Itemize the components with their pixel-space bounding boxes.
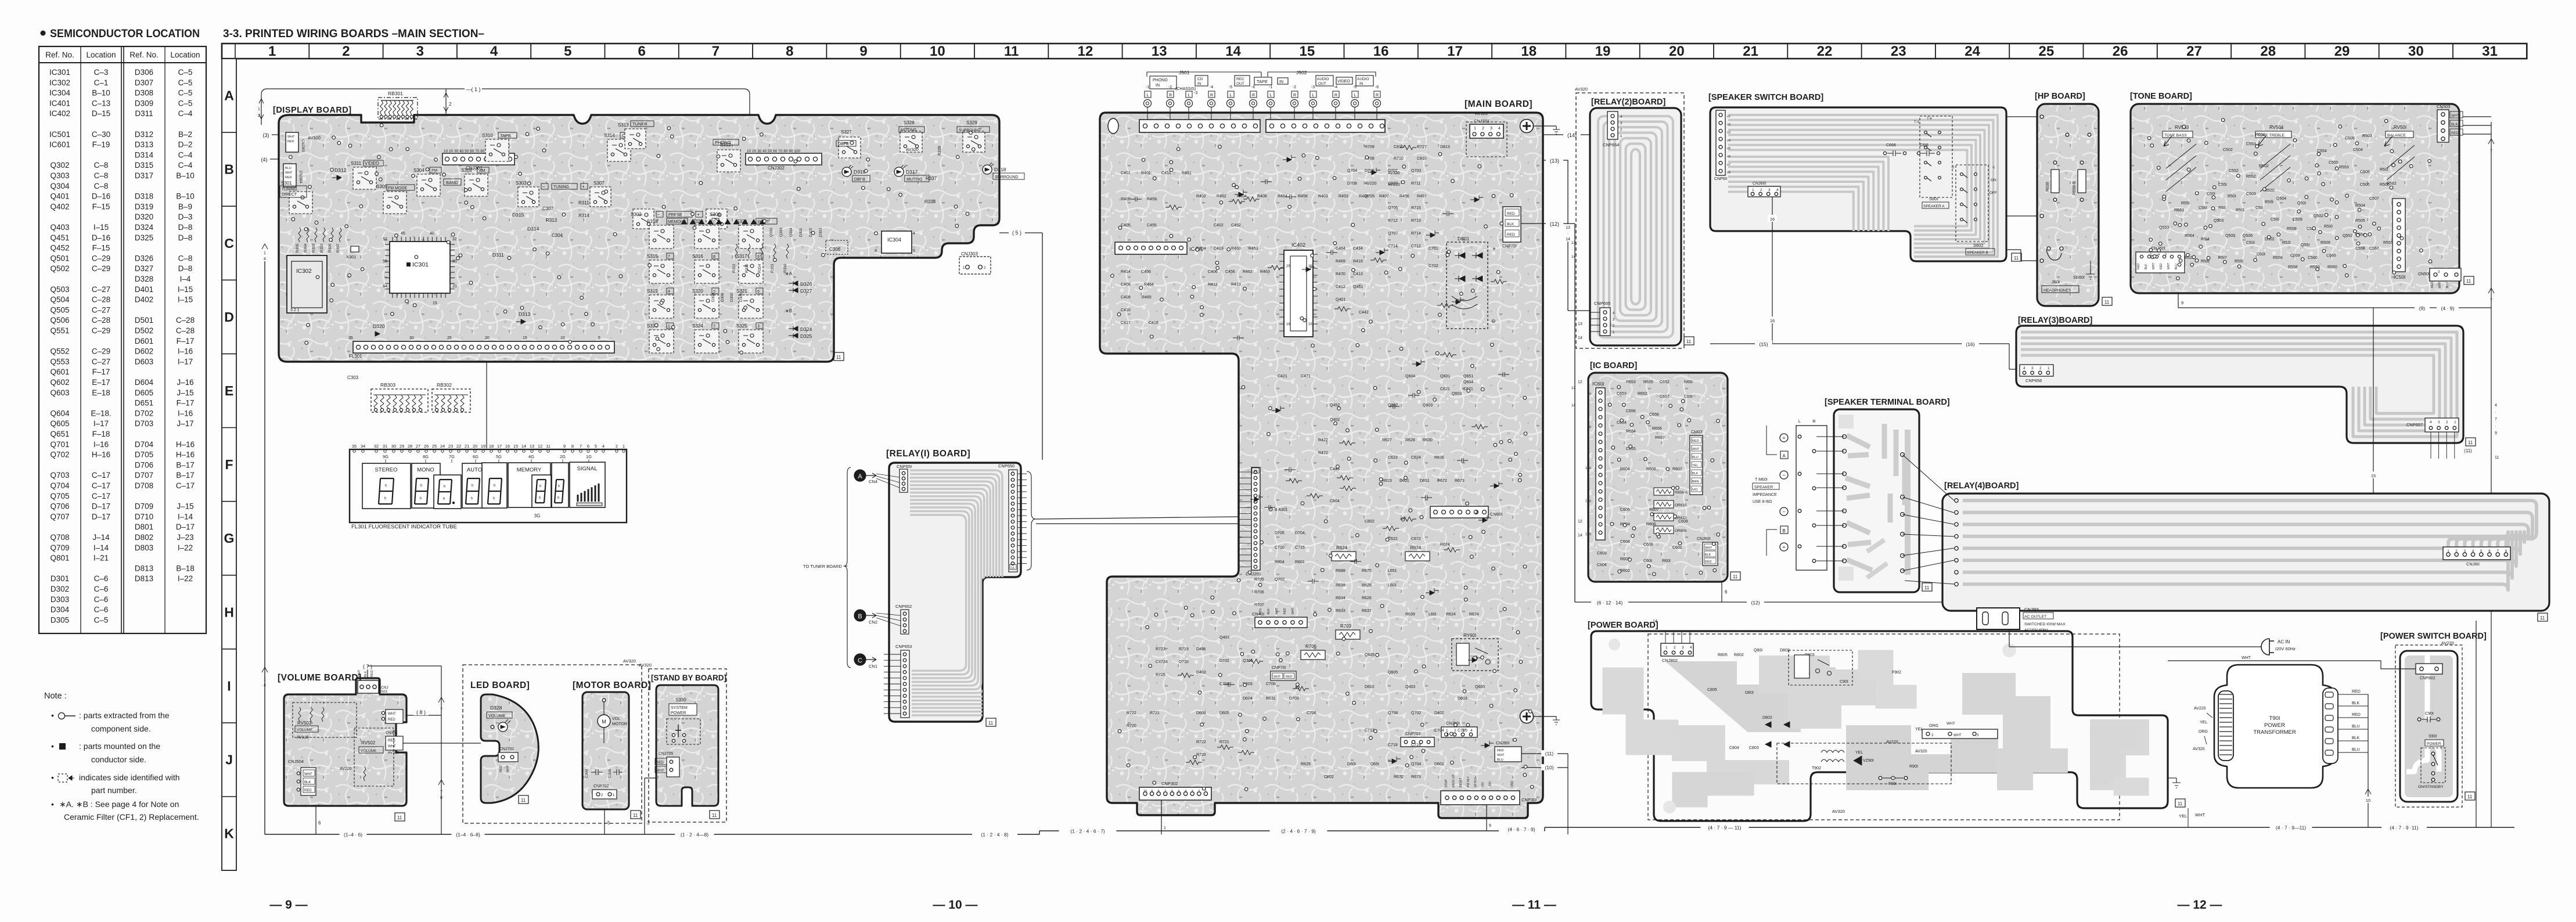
switch S305 FM MODE (376, 184, 415, 214)
svg-text:BLK: BLK (2451, 123, 2458, 127)
svg-text:FL301: FL301 (349, 354, 362, 359)
svg-text:D324: D324 (800, 326, 812, 332)
svg-text:I–22: I–22 (178, 574, 193, 583)
HP board [11] mark (2102, 297, 2112, 305)
power board [11] mark (2175, 799, 2185, 807)
svg-text:C719: C719 (1411, 743, 1421, 747)
svg-text:(4 · 7 · 9 ·11): (4 · 7 · 9 ·11) (2390, 825, 2419, 831)
svg-text:R655: R655 (1643, 380, 1653, 384)
RB302 resistor network (432, 382, 470, 412)
connector CNJ601 + CNP702 bottom right (1401, 722, 1477, 747)
svg-text:11: 11 (1733, 574, 1738, 579)
svg-text:(12): (12) (1550, 221, 1559, 227)
connector CNJ301 (442, 149, 515, 171)
svg-text:R555: R555 (2383, 241, 2393, 245)
connector CNJ302 (746, 149, 822, 171)
svg-text:WHT: WHT (388, 745, 396, 748)
svg-text:D302: D302 (51, 585, 69, 593)
wire 3 standby bottom (645, 778, 656, 834)
svg-text:D318: D318 (994, 167, 1006, 172)
svg-text:11: 11 (1686, 339, 1692, 344)
svg-text:RED: RED (287, 140, 294, 143)
svg-text:WHT: WHT (1947, 722, 1955, 726)
svg-text:4: 4 (1498, 127, 1501, 131)
svg-text:D603: D603 (1458, 697, 1467, 701)
svg-text:11: 11 (988, 721, 994, 726)
semiconductor location table (39, 46, 206, 633)
svg-text:C803: C803 (1749, 746, 1759, 750)
svg-text:3: 3 (647, 820, 650, 826)
svg-text:C605: C605 (1620, 508, 1630, 512)
svg-text:S303: S303 (516, 181, 527, 186)
speaker terminal screws/terminals (1753, 426, 1788, 556)
svg-text:D327: D327 (800, 288, 812, 294)
wire 1 CNP302 to bus (1161, 800, 1166, 834)
svg-text:28: 28 (408, 444, 412, 449)
svg-text:4: 4 (490, 44, 498, 59)
switch S601 SPEAKER A (1914, 116, 1952, 208)
svg-text:RV504: RV504 (2269, 125, 2284, 130)
svg-text:+5V: +5V (1481, 781, 1485, 787)
svg-text:CNJ60I: CNJ60I (1697, 537, 1710, 541)
svg-text:C–27: C–27 (92, 305, 110, 314)
svg-text:5: 5 (564, 44, 571, 59)
svg-text:C306: C306 (829, 247, 841, 252)
svg-text:AV220: AV220 (340, 767, 352, 771)
YEL WHT labels below power board (2179, 808, 2205, 827)
svg-text:E–18.: E–18. (91, 409, 111, 417)
svg-text:C–5: C–5 (178, 99, 193, 107)
svg-text:14: 14 (1578, 534, 1582, 538)
svg-text:S302: S302 (631, 212, 642, 217)
svg-text:R562: R562 (2387, 182, 2397, 186)
svg-text:D802: D802 (135, 533, 153, 542)
svg-text:[TONE BOARD]: [TONE BOARD] (2130, 92, 2192, 101)
svg-text:D707: D707 (135, 471, 153, 480)
svg-text:C702: C702 (1429, 264, 1438, 268)
svg-text:Q451: Q451 (50, 233, 69, 242)
svg-text:Q55I: Q55I (2301, 243, 2309, 247)
svg-text:K: K (224, 826, 234, 841)
node C / CN1 (854, 654, 877, 669)
svg-text:R706: R706 (1254, 590, 1264, 595)
svg-text:C456: C456 (1141, 270, 1151, 274)
svg-text:C308: C308 (608, 769, 612, 778)
svg-text:11: 11 (2014, 255, 2019, 261)
svg-text:1: 1 (268, 44, 276, 59)
svg-text:S304: S304 (413, 168, 424, 173)
svg-text:IC402: IC402 (1291, 242, 1305, 248)
svg-text:-2: -2 (1951, 166, 1955, 170)
svg-text:3G: 3G (534, 513, 541, 518)
svg-text:D705: D705 (135, 451, 153, 459)
svg-text:YEL: YEL (1692, 464, 1698, 467)
jack panel J501/J502 above main board (1139, 70, 1385, 132)
LED board [11] mark (519, 795, 528, 804)
svg-text:3: 3 (1192, 790, 1193, 793)
T902 transformer dashed box (1777, 743, 1951, 784)
svg-text:o8: o8 (1727, 171, 1730, 175)
svg-text:h: h (539, 496, 541, 500)
svg-text:C805: C805 (1707, 688, 1717, 692)
svg-text:R503: R503 (2362, 134, 2372, 138)
svg-text:CNJ6I0: CNJ6I0 (1753, 182, 1766, 186)
svg-text:Q605: Q605 (1388, 671, 1398, 675)
svg-text:D401: D401 (135, 285, 153, 294)
crystal X301 (346, 246, 359, 260)
svg-text:C802: C802 (1365, 520, 1375, 524)
svg-text:D317: D317 (135, 171, 153, 180)
svg-text:CNJ60I: CNJ60I (1446, 722, 1459, 726)
svg-text:[DISPLAY BOARD]: [DISPLAY BOARD] (273, 106, 352, 115)
svg-text:R711: R711 (1411, 182, 1420, 186)
wire (8) volume right (406, 708, 441, 715)
svg-text:CNP652: CNP652 (895, 604, 912, 609)
svg-text:R639: R639 (2046, 182, 2050, 192)
connector CNJ504 (288, 759, 352, 795)
connector CNP655 (1590, 301, 1615, 336)
svg-text:RED: RED (370, 670, 374, 677)
svg-text:Q707: Q707 (50, 512, 69, 521)
svg-text:D307: D307 (135, 78, 153, 87)
svg-text:( 7 ): ( 7 ) (363, 664, 372, 669)
svg-text:B–10: B–10 (176, 192, 195, 201)
screw hole top right (1520, 120, 1560, 135)
svg-text:9: 9 (859, 44, 867, 59)
svg-text:PRESE: PRESE (668, 213, 682, 217)
svg-text:D314: D314 (527, 226, 539, 232)
svg-text:Q702: Q702 (1275, 578, 1285, 582)
connectors CNJ305 CNJ304 (board left edge) (283, 132, 321, 187)
svg-text:2: 2 (342, 44, 350, 59)
svg-text:Q704: Q704 (1347, 169, 1357, 173)
svg-text:WHT: WHT (388, 712, 396, 716)
svg-text:C–5: C–5 (178, 89, 193, 98)
svg-text:B–9: B–9 (178, 202, 192, 211)
svg-text:D710: D710 (135, 512, 153, 521)
svg-text:R656: R656 (1652, 427, 1662, 431)
caps C309 C308 (585, 769, 623, 778)
svg-text:M: M (602, 719, 606, 725)
svg-text:C623: C623 (1388, 456, 1398, 460)
svg-text:2: 2 (1482, 127, 1484, 131)
diode D311 (492, 252, 504, 258)
svg-text:IC304: IC304 (887, 237, 901, 243)
svg-text:R: R (1169, 93, 1172, 98)
svg-text:(6 · 12 · 14): (6 · 12 · 14) (1597, 600, 1623, 606)
svg-text:R652: R652 (1638, 392, 1647, 396)
RV501 BALANCE pot (2384, 125, 2415, 180)
svg-text:R722: R722 (1127, 711, 1136, 715)
svg-text:C414: C414 (1353, 247, 1363, 251)
FL301 connector row (348, 336, 614, 359)
power switch board outline (2400, 651, 2458, 802)
svg-text:T-3: T-3 (1914, 121, 1919, 124)
svg-text:BRN: BRN (1692, 480, 1699, 484)
relay(2) serpentine traces (1598, 116, 1673, 337)
diode D314 (527, 226, 539, 232)
svg-text:0: 0 (713, 220, 715, 224)
svg-text:R703: R703 (1340, 624, 1352, 629)
svg-text:L: L (1798, 419, 1801, 424)
IC401 connector row (1115, 242, 1203, 254)
svg-text:2: 2 (1674, 646, 1676, 650)
svg-text:L: L (1230, 93, 1232, 98)
wire arrows (3) (4) display left (261, 132, 279, 163)
svg-text:R52I: R52I (2282, 241, 2291, 245)
svg-text:SG60I: SG60I (2073, 276, 2085, 280)
switch S302 - PRESE + S306 (631, 209, 727, 229)
svg-text:IC601: IC601 (49, 141, 70, 149)
svg-text:IMPEDANCE: IMPEDANCE (1753, 493, 1777, 497)
svg-text:BLU: BLU (1692, 456, 1699, 459)
main board small diodes/resistors scatter (1131, 145, 1509, 765)
svg-text:S329: S329 (966, 120, 977, 125)
svg-text:6: 6 (1171, 790, 1173, 793)
svg-text:11: 11 (836, 355, 841, 360)
svg-text:C471: C471 (1301, 374, 1311, 379)
svg-text:L: L (1147, 93, 1149, 98)
svg-text:Q80I: Q80I (1754, 649, 1762, 653)
svg-text:o5: o5 (1727, 147, 1730, 150)
svg-text:-30V: -30V (1489, 781, 1492, 787)
power switch [11] mark (2465, 792, 2475, 800)
svg-text:R727: R727 (1417, 145, 1427, 149)
connector CNP650 (998, 463, 1036, 572)
svg-text:R505: R505 (2355, 219, 2365, 223)
svg-text:RED: RED (388, 739, 395, 743)
svg-text:3: 3 (1768, 188, 1771, 192)
RV504 TONE TREBLE pot (2255, 125, 2291, 192)
svg-text:D–16: D–16 (92, 233, 110, 242)
svg-text:11: 11 (633, 813, 638, 818)
svg-text:R65I: R65I (1684, 380, 1693, 384)
svg-text:R401: R401 (1141, 171, 1151, 175)
svg-text:I–16: I–16 (178, 409, 193, 417)
svg-text:E–18: E–18 (92, 388, 110, 397)
svg-text:CNP650: CNP650 (998, 463, 1014, 469)
svg-text:C401: C401 (1121, 171, 1131, 175)
svg-text:R607: R607 (1672, 467, 1682, 471)
svg-text:16: 16 (1770, 217, 1775, 222)
svg-text:R314: R314 (578, 213, 590, 218)
svg-text:(4): (4) (261, 157, 268, 163)
svg-text:AV320: AV320 (1832, 809, 1845, 814)
svg-text:1: 1 (1665, 646, 1668, 650)
svg-text:1: 1 (1446, 729, 1448, 733)
svg-text:CN4: CN4 (869, 479, 877, 484)
svg-text:16: 16 (1286, 323, 1290, 326)
svg-text:H–16: H–16 (176, 451, 195, 459)
svg-text:R654: R654 (1626, 430, 1636, 434)
main board outline (1100, 113, 1543, 818)
svg-text:R323: R323 (771, 264, 775, 273)
svg-text:D–17: D–17 (176, 523, 195, 531)
svg-text:S319: S319 (647, 289, 658, 294)
svg-text:RB301: RB301 (388, 91, 403, 96)
svg-text:D312: D312 (334, 167, 347, 173)
svg-text:C65I: C65I (1684, 395, 1693, 399)
svg-text:D312: D312 (135, 130, 153, 139)
svg-text:C621: C621 (1440, 387, 1450, 391)
svg-text:11: 11 (2467, 794, 2473, 799)
svg-text:IN: IN (1279, 80, 1283, 84)
svg-text:(4 · 9): (4 · 9) (2441, 305, 2455, 311)
svg-text:R721: R721 (1150, 711, 1160, 715)
svg-text:1G: 1G (586, 454, 592, 459)
svg-text:–: – (657, 212, 660, 217)
svg-text:D402: D402 (1434, 711, 1444, 715)
res R311 (578, 200, 589, 206)
svg-text:21: 21 (465, 444, 469, 449)
svg-text:(14): (14) (1567, 132, 1577, 138)
svg-text:7: 7 (440, 708, 442, 712)
svg-text:R325: R325 (745, 264, 749, 273)
svg-text:R5I2: R5I2 (2380, 168, 2388, 172)
svg-text:TRANSFORMER: TRANSFORMER (2253, 729, 2296, 736)
svg-text:RED: RED (304, 789, 312, 793)
svg-text:R553: R553 (2339, 165, 2349, 170)
diode D313 (516, 311, 531, 324)
svg-text:AV320: AV320 (1475, 111, 1488, 116)
svg-text:L: L (1354, 93, 1357, 98)
svg-text:DBFB: DBFB (854, 178, 865, 182)
svg-text:1: 1 (2048, 366, 2050, 370)
svg-text:D402: D402 (135, 296, 153, 304)
switch S901 POWER (2418, 734, 2445, 789)
relay(2) dashed enclosure AV320 (1575, 87, 1684, 348)
svg-text:C652: C652 (1660, 380, 1670, 384)
svg-text:Q502: Q502 (2314, 214, 2323, 218)
svg-text:R465: R465 (1142, 296, 1152, 300)
svg-text:25: 25 (2038, 44, 2054, 59)
svg-text:S316: S316 (692, 254, 703, 259)
svg-text:OR615: OR615 (1675, 503, 1687, 507)
svg-text:3 2 1: 3 2 1 (290, 308, 300, 312)
svg-text:TUNING: TUNING (282, 188, 297, 192)
svg-text:C455: C455 (1147, 224, 1157, 228)
svg-text:16: 16 (1373, 44, 1389, 59)
svg-text:Q705: Q705 (1365, 195, 1375, 199)
svg-text:R306: R306 (328, 243, 332, 253)
wires AV220/AV320 labels near T901 (2193, 656, 2251, 751)
svg-text:RED: RED (285, 176, 292, 179)
svg-text:8G: 8G (423, 454, 429, 459)
speaker terminal L/R terminal box (1796, 419, 1844, 570)
svg-text:1: 1 (1474, 127, 1476, 131)
svg-text:CNP657: CNP657 (2406, 422, 2423, 427)
svg-text:2: 2 (449, 102, 452, 107)
svg-text:Q702: Q702 (50, 451, 69, 459)
RV502 volume pot (dashed) (293, 703, 357, 740)
svg-text:F–17: F–17 (177, 337, 195, 345)
svg-text:D313: D313 (519, 311, 531, 317)
svg-text:C6I8: C6I8 (1920, 143, 1929, 147)
svg-text:YEL: YEL (1915, 727, 1923, 732)
svg-text:6: 6 (318, 820, 321, 826)
svg-text:Q651: Q651 (1463, 374, 1473, 379)
svg-text:IC302: IC302 (49, 78, 70, 87)
svg-text:11: 11 (546, 444, 551, 449)
speaker switch [11] mark (2012, 253, 2021, 261)
svg-text:D601: D601 (135, 337, 153, 345)
svg-text:RED: RED (2451, 132, 2459, 135)
svg-text:C8724: C8724 (1156, 660, 1168, 664)
svg-text:R303: R303 (312, 243, 316, 253)
svg-text:C418: C418 (1149, 321, 1159, 325)
svg-text:C810: C810 (1417, 157, 1427, 161)
FL301 fluorescent indicator tube drawing (350, 444, 627, 530)
svg-text:R602: R602 (1620, 569, 1630, 573)
svg-text:I–15: I–15 (178, 296, 193, 304)
svg-text:R713: R713 (1411, 219, 1421, 223)
display board outline (279, 115, 999, 362)
svg-text:R707: R707 (1254, 603, 1264, 607)
cap C304 (552, 233, 563, 238)
svg-text:R689: R689 (1336, 569, 1345, 573)
svg-text:25: 25 (1286, 265, 1290, 268)
svg-text:AV220: AV220 (1886, 740, 1898, 744)
IC402 (1279, 242, 1318, 337)
svg-text:[MOTOR BOARD]: [MOTOR BOARD] (573, 680, 651, 690)
svg-text:C421: C421 (1278, 374, 1287, 379)
svg-text:D301: D301 (51, 574, 69, 583)
svg-text:S308: S308 (461, 168, 472, 173)
svg-text:R460: R460 (1231, 247, 1241, 251)
svg-text:(2 · 4 · 6 · 7 · 9): (2 · 4 · 6 · 7 · 9) (1281, 829, 1316, 834)
svg-text:C–29: C–29 (92, 254, 110, 262)
svg-text:(1 · 2 · 4 · 6 · 7): (1 · 2 · 4 · 6 · 7) (1070, 829, 1105, 834)
svg-text:o1: o1 (1727, 115, 1730, 118)
svg-text:Q604: Q604 (1463, 380, 1473, 384)
svg-text:SWITCHED I00W MAX: SWITCHED I00W MAX (2024, 622, 2066, 626)
svg-text:B–17: B–17 (176, 460, 195, 469)
svg-text:CN1: CN1 (869, 664, 877, 669)
svg-text:WHT: WHT (1692, 448, 1700, 451)
svg-text:2: 2 (1454, 729, 1456, 733)
svg-text:RB303: RB303 (380, 382, 395, 388)
svg-text:J–16: J–16 (177, 378, 193, 387)
svg-text:4: 4 (264, 683, 266, 687)
svg-text:C410: C410 (1121, 308, 1131, 312)
svg-text:Q708: Q708 (50, 533, 69, 542)
svg-text:Q553: Q553 (2159, 226, 2169, 230)
svg-text:YEL: YEL (1855, 751, 1863, 755)
relay(1) board outline (889, 463, 1021, 722)
svg-text:R413: R413 (1231, 283, 1241, 287)
svg-text:C509: C509 (2293, 218, 2302, 222)
svg-text:R626: R626 (1362, 596, 1372, 600)
svg-text:C–17: C–17 (176, 481, 195, 490)
res row R322-R330 (732, 244, 789, 273)
svg-text:(3): (3) (263, 132, 269, 138)
svg-text:RED: RED (2431, 282, 2434, 288)
svg-text:20: 20 (473, 444, 477, 449)
svg-text:15: 15 (2371, 473, 2376, 478)
svg-text:CNJ: CNJ (381, 686, 388, 690)
svg-text:CN50I: CN50I (2418, 272, 2430, 276)
svg-text:2: 2 (713, 325, 715, 329)
svg-text:B: B (224, 162, 234, 177)
svg-text:4: 4 (668, 290, 670, 294)
svg-text:R719: R719 (1179, 647, 1189, 651)
svg-text:D709: D709 (135, 502, 153, 511)
svg-text:h: h (494, 484, 495, 488)
svg-text:Location: Location (170, 51, 200, 59)
svg-text:CN40I: CN40I (1252, 611, 1264, 617)
svg-text:D320: D320 (373, 323, 385, 329)
svg-text:C–6: C–6 (94, 585, 109, 593)
